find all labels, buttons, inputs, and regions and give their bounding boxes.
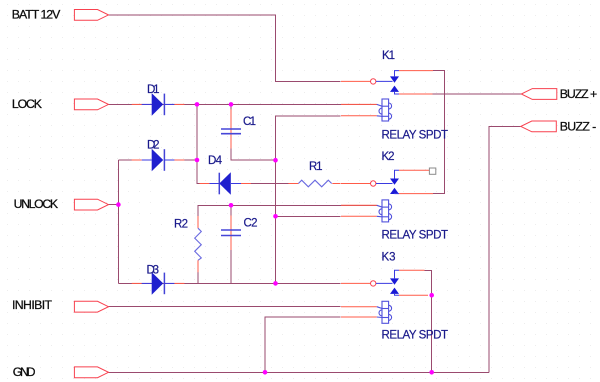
capacitor C1: [221, 109, 241, 148]
svg-text:D4: D4: [208, 155, 223, 167]
svg-text:LOCK: LOCK: [12, 97, 43, 111]
wire C1 top stem: [230, 104, 232, 129]
wire R2 bottom stem: [197, 260, 199, 283]
wire cathode bus x=197 down to D4: [197, 104, 210, 183]
wire GND row: [109, 371, 490, 373]
junction D2 cathode bus: [195, 158, 200, 163]
capacitor C2: [221, 216, 241, 251]
svg-text:INHIBIT: INHIBIT: [12, 298, 52, 312]
wire K1 NO to BUZZ plus: [433, 93, 522, 95]
junction common net K2 coil: [273, 214, 278, 219]
diode D2: [132, 149, 185, 172]
port BATT 12V: [74, 10, 108, 21]
relay K1: [341, 71, 433, 121]
junction C1 top: [229, 102, 234, 107]
wire D3 row to K3 common contact: [118, 282, 340, 284]
junction common net D3 row: [273, 281, 278, 286]
svg-text:UNLOCK: UNLOCK: [14, 197, 59, 211]
wire GND branch to K3 coil bottom: [265, 317, 341, 372]
svg-text:GND: GND: [13, 365, 36, 379]
wire C1 bottom to common net dot: [231, 134, 276, 161]
junction UNLOCK: [116, 202, 121, 207]
port BUZZ plus: [521, 89, 557, 100]
wire D2 anode lead: [118, 159, 141, 161]
relay K2: [341, 168, 436, 222]
resistor R2: [195, 216, 202, 272]
port GND: [74, 367, 108, 378]
svg-text:R1: R1: [309, 161, 323, 173]
svg-text:C1: C1: [243, 116, 256, 128]
wire BUZZ minus vertical: [489, 126, 521, 372]
junction C2 top: [229, 203, 234, 208]
svg-text:RELAY SPDT: RELAY SPDT: [382, 330, 449, 342]
diode D1: [132, 93, 185, 116]
wire D4 anode to R1 left: [231, 183, 288, 185]
wire K1 NC chain to K2 NO: [433, 71, 444, 194]
wire K3 NC corner: [425, 270, 432, 295]
junction common net C1: [273, 158, 278, 163]
svg-text:K1: K1: [382, 50, 395, 62]
junction GND K3 coil: [263, 370, 268, 375]
wire BATT 12V to K1 common contact: [109, 15, 341, 82]
port LOCK: [74, 99, 108, 110]
wire LOCK row through D1 to K1 coil top: [109, 103, 377, 105]
diode D3: [132, 272, 185, 295]
wire K3 contacts to GND: [431, 295, 433, 372]
svg-text:C2: C2: [244, 218, 258, 230]
port BUZZ minus: [521, 121, 557, 132]
svg-text:BUZZ -: BUZZ -: [560, 119, 597, 133]
diode D4 pointing left: [200, 172, 252, 195]
svg-text:D2: D2: [147, 140, 160, 152]
svg-text:BATT 12V: BATT 12V: [12, 8, 61, 22]
svg-text:K2: K2: [382, 151, 395, 163]
wire common net to K2 coil bottom: [276, 215, 341, 217]
junction GND K3 contacts: [429, 370, 434, 375]
port UNLOCK: [74, 199, 108, 210]
no-connect square on K2 NC contact: [429, 168, 435, 174]
wire INHIBIT to K3 coil top: [109, 306, 341, 308]
wire D2 cathode to bus dot: [164, 159, 197, 161]
svg-text:D3: D3: [147, 264, 160, 276]
svg-text:D1: D1: [147, 84, 160, 96]
junction D1 cathode bus: [195, 102, 200, 107]
wire C2 top stem: [230, 205, 232, 230]
svg-text:RELAY SPDT: RELAY SPDT: [382, 129, 449, 141]
wire UNLOCK vertical D2 to D3: [117, 160, 119, 283]
port INHIBIT: [74, 301, 108, 312]
wire R2 top to K2 coil top: [198, 205, 377, 228]
svg-text:R2: R2: [174, 219, 188, 231]
svg-text:BUZZ +: BUZZ +: [560, 87, 598, 101]
wire common net vertical x=275.5: [276, 116, 341, 284]
resistor R1: [288, 180, 340, 187]
junction K3 contacts: [429, 293, 434, 298]
wire R1 right to K2 common contact: [332, 183, 340, 185]
relay K3: [341, 270, 428, 323]
svg-text:K3: K3: [382, 252, 396, 264]
wire UNLOCK port stub: [109, 204, 119, 206]
svg-text:RELAY SPDT: RELAY SPDT: [382, 229, 449, 241]
wire C2 bottom stem: [230, 236, 232, 284]
